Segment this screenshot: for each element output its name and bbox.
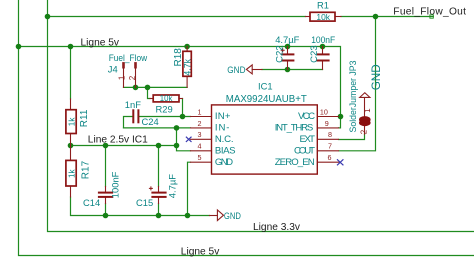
svg-text:R1: R1 bbox=[317, 0, 329, 11]
svg-text:10k: 10k bbox=[316, 13, 331, 22]
svg-text:4: 4 bbox=[198, 142, 202, 151]
svg-text:C23: C23 bbox=[309, 45, 320, 63]
svg-text:GND: GND bbox=[215, 157, 233, 168]
svg-text:4.7µF: 4.7µF bbox=[166, 174, 177, 198]
svg-text:R11: R11 bbox=[79, 109, 90, 127]
svg-text:Line 2.5v IC1: Line 2.5v IC1 bbox=[88, 134, 148, 145]
svg-text:5: 5 bbox=[198, 153, 202, 162]
svg-text:Ligne 5v: Ligne 5v bbox=[81, 37, 120, 48]
svg-text:10k: 10k bbox=[160, 94, 173, 103]
svg-text:1: 1 bbox=[363, 108, 372, 113]
svg-text:MAX9924UAUB+T: MAX9924UAUB+T bbox=[226, 94, 307, 105]
svg-text:Ligne 3.3v: Ligne 3.3v bbox=[253, 222, 301, 233]
svg-text:IN+: IN+ bbox=[215, 111, 231, 122]
svg-text:3: 3 bbox=[198, 130, 202, 139]
svg-text:COUT: COUT bbox=[294, 146, 315, 157]
svg-text:IN-: IN- bbox=[215, 123, 230, 134]
svg-text:VCC: VCC bbox=[298, 111, 315, 122]
svg-text:1: 1 bbox=[118, 75, 127, 80]
svg-text:IC1: IC1 bbox=[258, 80, 273, 91]
svg-text:2: 2 bbox=[359, 129, 368, 134]
svg-text:4.7µF: 4.7µF bbox=[275, 34, 299, 45]
svg-text:1k: 1k bbox=[67, 168, 76, 178]
svg-text:R17: R17 bbox=[81, 160, 92, 179]
svg-text:C24: C24 bbox=[142, 116, 159, 127]
svg-text:2: 2 bbox=[128, 75, 137, 80]
svg-text:BIAS: BIAS bbox=[215, 146, 236, 157]
svg-text:7: 7 bbox=[328, 142, 332, 151]
svg-text:6: 6 bbox=[328, 153, 332, 162]
svg-text:Fuel_Flow_Out: Fuel_Flow_Out bbox=[393, 7, 466, 18]
svg-text:R29: R29 bbox=[156, 103, 173, 114]
svg-text:INT_THRS: INT_THRS bbox=[275, 123, 314, 134]
svg-text:10: 10 bbox=[320, 107, 328, 116]
svg-text:4.7k: 4.7k bbox=[182, 58, 192, 75]
svg-text:GND: GND bbox=[370, 64, 383, 90]
svg-text:SolderJumper JP3: SolderJumper JP3 bbox=[348, 60, 358, 132]
svg-text:J4: J4 bbox=[108, 64, 118, 75]
svg-text:2: 2 bbox=[198, 119, 202, 128]
svg-text:C22: C22 bbox=[275, 45, 286, 63]
svg-text:1nF: 1nF bbox=[125, 99, 141, 110]
svg-text:C15: C15 bbox=[136, 197, 153, 208]
svg-text:GND: GND bbox=[227, 64, 245, 75]
svg-text:8: 8 bbox=[328, 130, 332, 139]
svg-text:1k: 1k bbox=[67, 117, 76, 127]
svg-text:Ligne 5v: Ligne 5v bbox=[181, 246, 220, 257]
svg-text:N.C.: N.C. bbox=[215, 134, 234, 145]
svg-text:EXT: EXT bbox=[300, 134, 316, 145]
svg-text:100nF: 100nF bbox=[311, 34, 335, 45]
svg-text:9: 9 bbox=[325, 119, 329, 128]
svg-text:ZERO_EN: ZERO_EN bbox=[275, 157, 315, 168]
svg-text:100nF: 100nF bbox=[110, 171, 121, 198]
svg-text:GND: GND bbox=[224, 210, 241, 221]
svg-text:1: 1 bbox=[198, 107, 202, 116]
svg-text:Fuel_Flow: Fuel_Flow bbox=[109, 52, 148, 63]
svg-text:C14: C14 bbox=[83, 197, 100, 208]
